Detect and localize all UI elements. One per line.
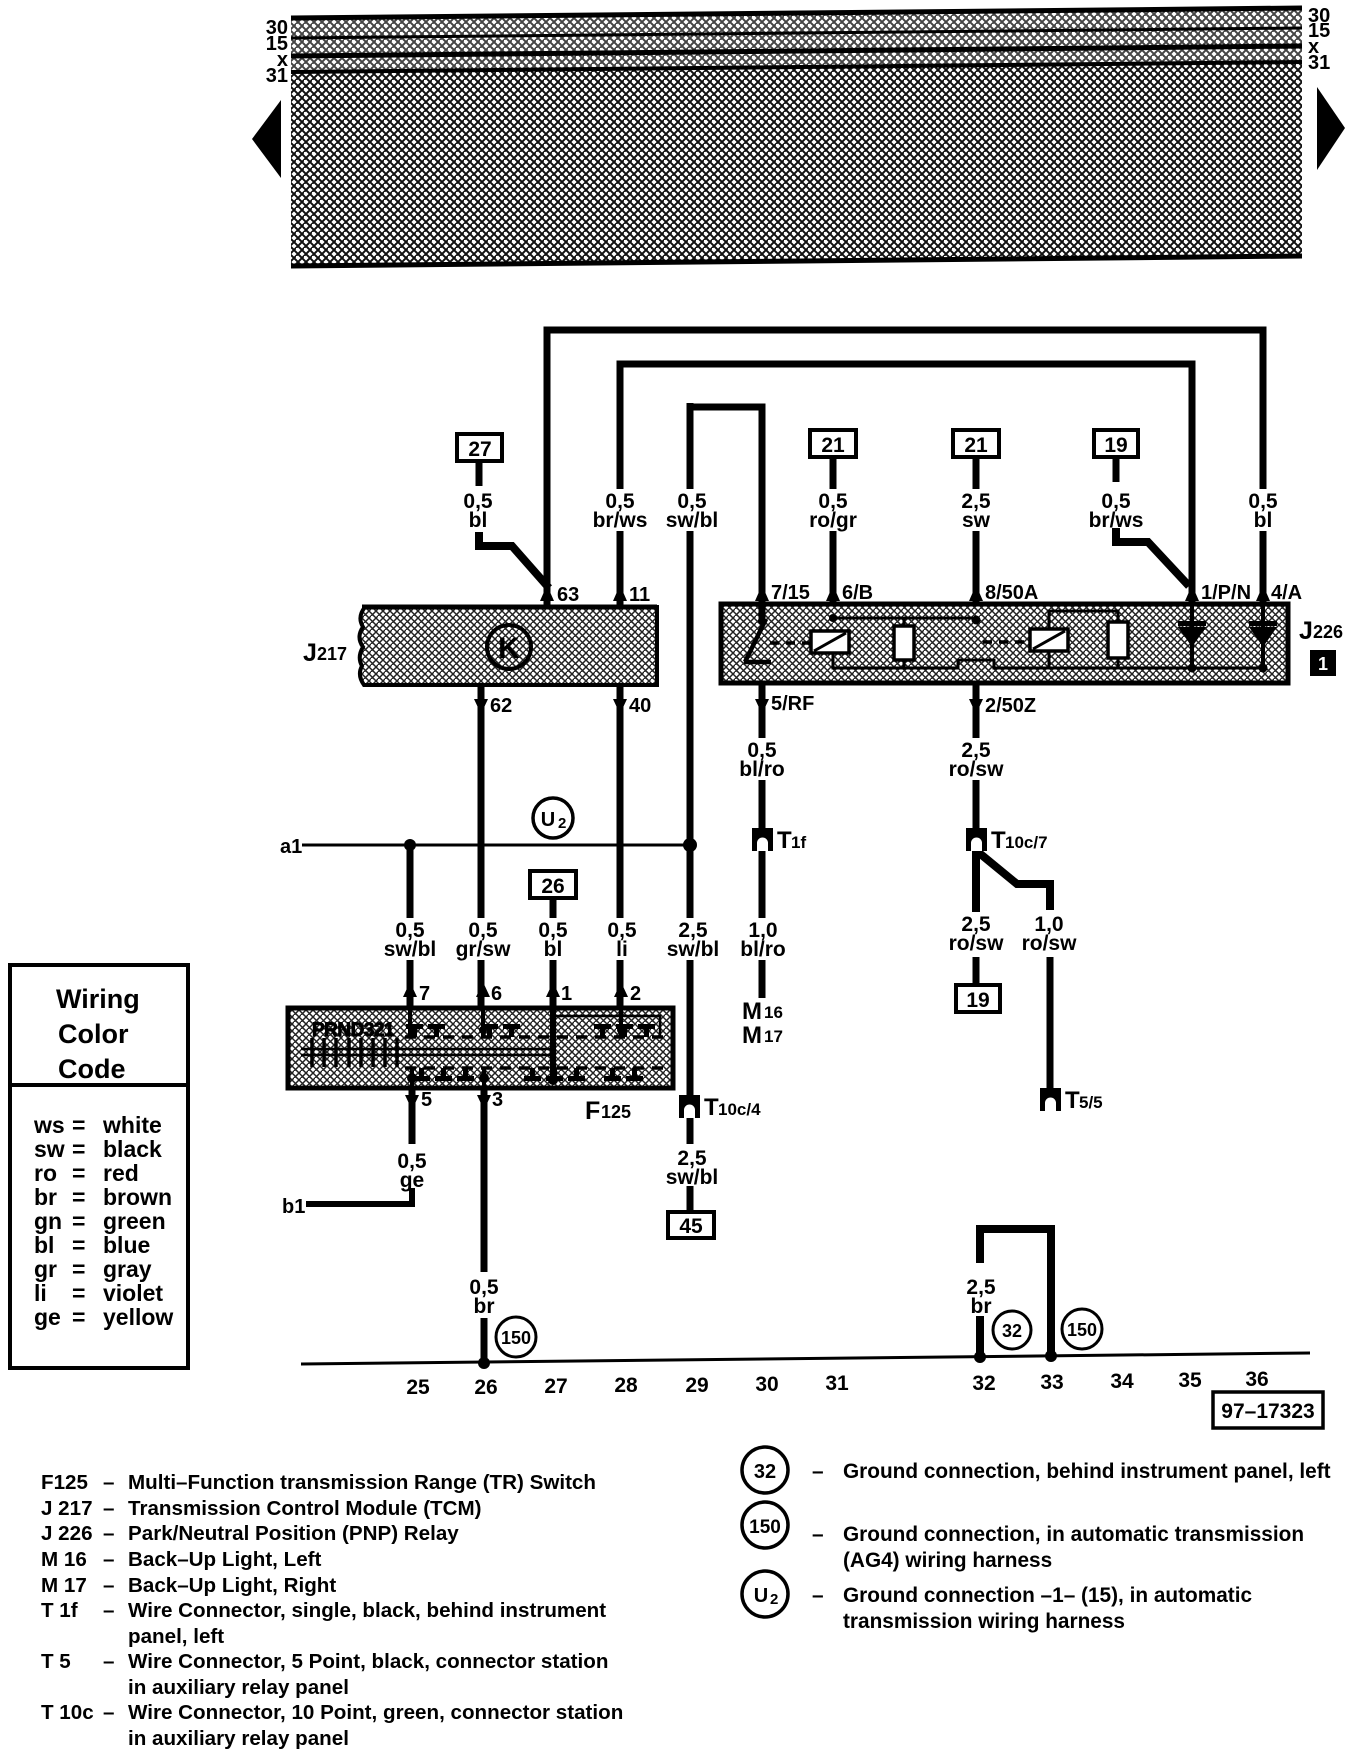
svg-text:gray: gray <box>103 1256 152 1282</box>
svg-text:T 10c: T 10c <box>41 1701 94 1724</box>
svg-text:a1: a1 <box>280 836 302 858</box>
svg-text:F: F <box>585 1097 600 1125</box>
svg-text:br: br <box>474 1295 495 1318</box>
svg-text:ro/sw: ro/sw <box>949 758 1005 781</box>
svg-text:10c/7: 10c/7 <box>1005 833 1048 852</box>
svg-text:5/RF: 5/RF <box>771 693 814 715</box>
svg-text:=: = <box>72 1232 85 1258</box>
svg-text:2: 2 <box>630 983 641 1005</box>
svg-text:217: 217 <box>317 644 347 664</box>
svg-text:Code: Code <box>58 1054 126 1084</box>
svg-text:32: 32 <box>972 1372 995 1395</box>
svg-text:ro/gr: ro/gr <box>809 509 857 532</box>
svg-text:sw/bl: sw/bl <box>666 509 719 532</box>
svg-text:ro/sw: ro/sw <box>1022 932 1078 955</box>
svg-text:45: 45 <box>679 1215 703 1238</box>
svg-text:5: 5 <box>421 1089 432 1111</box>
svg-text:ge: ge <box>34 1304 61 1330</box>
svg-text:–: – <box>103 1548 114 1571</box>
svg-text:36: 36 <box>1245 1368 1268 1391</box>
svg-text:7: 7 <box>419 983 430 1005</box>
svg-text:4/A: 4/A <box>1271 582 1302 604</box>
svg-text:b1: b1 <box>282 1196 305 1218</box>
svg-text:33: 33 <box>1040 1371 1063 1394</box>
svg-text:ro: ro <box>34 1160 57 1186</box>
svg-text:green: green <box>103 1208 166 1234</box>
svg-text:PRND321: PRND321 <box>312 1020 395 1041</box>
svg-text:gn: gn <box>34 1208 62 1234</box>
svg-text:sw/bl: sw/bl <box>384 938 437 961</box>
svg-text:=: = <box>72 1160 85 1186</box>
svg-text:gr/sw: gr/sw <box>456 938 512 961</box>
svg-text:brown: brown <box>103 1184 172 1210</box>
svg-text:=: = <box>72 1184 85 1210</box>
svg-text:br/ws: br/ws <box>1089 509 1144 532</box>
svg-text:21: 21 <box>964 434 988 457</box>
svg-text:T: T <box>1065 1087 1080 1114</box>
svg-text:U: U <box>754 1585 768 1607</box>
svg-text:Back–Up Light, Left: Back–Up Light, Left <box>128 1548 322 1571</box>
svg-text:1f: 1f <box>791 833 806 852</box>
svg-text:7/15: 7/15 <box>771 582 810 604</box>
svg-text:white: white <box>102 1112 162 1138</box>
svg-text:Park/Neutral Position (PNP) Re: Park/Neutral Position (PNP) Relay <box>128 1522 459 1545</box>
svg-text:U: U <box>541 809 555 831</box>
svg-text:Transmission Control Module (T: Transmission Control Module (TCM) <box>128 1497 482 1520</box>
svg-text:gr: gr <box>34 1256 57 1282</box>
svg-text:31: 31 <box>266 65 288 87</box>
svg-text:63: 63 <box>557 584 579 606</box>
svg-text:Color: Color <box>58 1019 129 1049</box>
svg-text:=: = <box>72 1304 85 1330</box>
svg-text:10c/4: 10c/4 <box>718 1100 761 1119</box>
svg-text:97–17323: 97–17323 <box>1221 1400 1314 1423</box>
svg-text:226: 226 <box>1313 622 1343 642</box>
svg-text:3: 3 <box>492 1089 503 1111</box>
svg-text:M: M <box>742 1022 762 1049</box>
svg-text:32: 32 <box>754 1461 776 1483</box>
svg-text:li: li <box>34 1280 47 1306</box>
svg-text:1: 1 <box>1318 654 1328 674</box>
svg-text:in auxiliary relay panel: in auxiliary relay panel <box>128 1676 349 1699</box>
svg-text:–: – <box>812 1460 824 1483</box>
svg-text:sw: sw <box>34 1136 65 1162</box>
svg-text:32: 32 <box>1002 1321 1022 1341</box>
svg-text:bl: bl <box>1254 509 1273 532</box>
svg-text:–: – <box>103 1522 114 1545</box>
svg-text:ge: ge <box>400 1169 425 1192</box>
svg-text:J: J <box>303 639 317 667</box>
svg-text:Multi–Function transmission Ra: Multi–Function transmission Range (TR) S… <box>128 1471 596 1494</box>
svg-text:blue: blue <box>103 1232 150 1258</box>
svg-text:–: – <box>812 1584 824 1607</box>
svg-text:F125: F125 <box>41 1471 88 1494</box>
svg-text:black: black <box>103 1136 162 1162</box>
svg-text:–: – <box>103 1650 114 1673</box>
svg-text:M 16: M 16 <box>41 1548 87 1571</box>
svg-text:T: T <box>777 827 792 854</box>
svg-text:125: 125 <box>601 1102 631 1122</box>
svg-text:2: 2 <box>558 815 566 832</box>
svg-text:–: – <box>812 1523 824 1546</box>
svg-text:in auxiliary relay panel: in auxiliary relay panel <box>128 1727 349 1750</box>
svg-text:26: 26 <box>541 875 564 898</box>
svg-text:6/B: 6/B <box>842 582 873 604</box>
svg-text:T: T <box>991 827 1006 854</box>
svg-text:8/50A: 8/50A <box>985 582 1038 604</box>
svg-text:panel, left: panel, left <box>128 1625 224 1648</box>
svg-text:T 1f: T 1f <box>41 1599 78 1622</box>
svg-text:bl/ro: bl/ro <box>739 758 785 781</box>
svg-text:Ground connection, behind inst: Ground connection, behind instrument pan… <box>843 1460 1331 1483</box>
svg-text:Wire Connector, 10 Point, gree: Wire Connector, 10 Point, green, connect… <box>128 1701 623 1724</box>
svg-text:17: 17 <box>764 1027 783 1046</box>
svg-text:35: 35 <box>1178 1369 1202 1392</box>
svg-text:1: 1 <box>561 983 572 1005</box>
svg-text:ws: ws <box>33 1112 65 1138</box>
svg-text:J 226: J 226 <box>41 1522 93 1545</box>
svg-text:Ground connection, in automati: Ground connection, in automatic transmis… <box>843 1523 1304 1546</box>
svg-text:br: br <box>34 1184 57 1210</box>
svg-text:yellow: yellow <box>103 1304 173 1330</box>
svg-text:28: 28 <box>614 1374 638 1397</box>
svg-text:J: J <box>1299 617 1313 645</box>
svg-text:40: 40 <box>629 695 651 717</box>
svg-text:30: 30 <box>755 1373 778 1396</box>
svg-text:bl: bl <box>544 938 563 961</box>
svg-text:Wire Connector, single, black,: Wire Connector, single, black, behind in… <box>128 1599 606 1622</box>
svg-text:M 17: M 17 <box>41 1574 87 1597</box>
svg-text:M: M <box>742 998 762 1025</box>
svg-text:=: = <box>72 1136 85 1162</box>
svg-text:br/ws: br/ws <box>593 509 648 532</box>
svg-text:150: 150 <box>1067 1320 1097 1340</box>
svg-text:–: – <box>103 1497 114 1520</box>
svg-text:34: 34 <box>1110 1370 1134 1393</box>
svg-text:bl: bl <box>469 509 488 532</box>
svg-text:li: li <box>616 938 628 961</box>
svg-text:J 217: J 217 <box>41 1497 93 1520</box>
svg-text:150: 150 <box>501 1328 531 1348</box>
svg-text:Ground connection –1– (15), in: Ground connection –1– (15), in automatic <box>843 1584 1252 1607</box>
svg-text:K: K <box>498 632 520 665</box>
svg-text:=: = <box>72 1256 85 1282</box>
svg-text:5/5: 5/5 <box>1079 1093 1103 1112</box>
svg-text:Back–Up Light, Right: Back–Up Light, Right <box>128 1574 336 1597</box>
svg-text:1/P/N: 1/P/N <box>1201 582 1251 604</box>
svg-text:sw/bl: sw/bl <box>667 938 720 961</box>
svg-text:–: – <box>103 1574 114 1597</box>
svg-text:sw: sw <box>962 509 991 532</box>
svg-text:Wiring: Wiring <box>56 984 140 1014</box>
svg-text:–: – <box>103 1599 114 1622</box>
svg-text:T 5: T 5 <box>41 1650 71 1673</box>
svg-text:31: 31 <box>825 1372 849 1395</box>
svg-text:62: 62 <box>490 695 512 717</box>
svg-text:2: 2 <box>770 1591 778 1608</box>
svg-text:sw/bl: sw/bl <box>666 1166 719 1189</box>
svg-text:150: 150 <box>749 1517 781 1538</box>
svg-text:bl: bl <box>34 1232 54 1258</box>
svg-text:–: – <box>103 1471 114 1494</box>
svg-text:=: = <box>72 1280 85 1306</box>
svg-text:29: 29 <box>685 1374 708 1397</box>
svg-text:6: 6 <box>491 983 502 1005</box>
svg-text:violet: violet <box>103 1280 163 1306</box>
svg-text:ro/sw: ro/sw <box>949 932 1005 955</box>
svg-text:25: 25 <box>406 1376 430 1399</box>
svg-text:27: 27 <box>544 1375 567 1398</box>
svg-text:11: 11 <box>629 584 650 606</box>
svg-text:31: 31 <box>1308 52 1330 74</box>
svg-text:19: 19 <box>1104 434 1127 457</box>
svg-text:27: 27 <box>468 438 491 461</box>
svg-text:2/50Z: 2/50Z <box>985 695 1036 717</box>
svg-text:26: 26 <box>474 1376 497 1399</box>
svg-text:19: 19 <box>966 989 989 1012</box>
svg-text:–: – <box>103 1701 114 1724</box>
svg-text:=: = <box>72 1112 85 1138</box>
svg-text:Wire Connector, 5 Point, black: Wire Connector, 5 Point, black, connecto… <box>128 1650 608 1673</box>
svg-text:=: = <box>72 1208 85 1234</box>
svg-text:21: 21 <box>821 434 845 457</box>
svg-text:(AG4) wiring harness: (AG4) wiring harness <box>843 1549 1052 1572</box>
svg-text:br: br <box>971 1295 992 1318</box>
svg-text:T: T <box>704 1094 719 1121</box>
svg-text:16: 16 <box>764 1003 783 1022</box>
svg-text:red: red <box>103 1160 139 1186</box>
svg-text:bl/ro: bl/ro <box>740 938 786 961</box>
svg-text:transmission wiring harness: transmission wiring harness <box>843 1610 1125 1633</box>
